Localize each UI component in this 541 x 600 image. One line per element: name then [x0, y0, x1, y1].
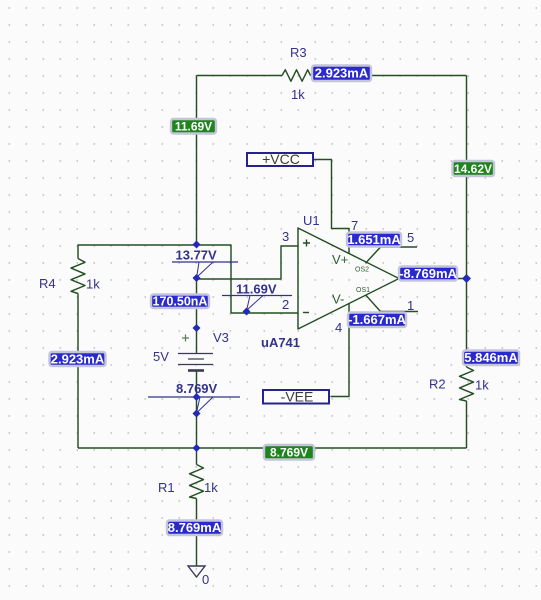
svg-text:-1.667mA: -1.667mA [348, 312, 406, 327]
svg-text:V3: V3 [213, 330, 229, 345]
node junction A (11.69V net) [193, 241, 201, 249]
svg-text:1k: 1k [475, 378, 489, 393]
power rail box -VEE [263, 389, 329, 405]
svg-text:3: 3 [282, 229, 289, 244]
op-amp pin 5 OS2 stub [366, 247, 418, 263]
probe point 11.69V (pin 2 wire) [243, 308, 251, 316]
resistor R1 zigzag [190, 465, 204, 499]
battery plus sign [182, 335, 189, 342]
wire junction A to R4 [78, 245, 197, 259]
voltage box 11.69V [171, 119, 216, 134]
wire right vertical (output node 14.62V) [466, 76, 468, 368]
op-amp internal labels [332, 252, 370, 307]
current box 8.769mA (R1) [167, 520, 222, 535]
svg-text:1.651mA: 1.651mA [347, 232, 401, 247]
current box 2.923mA (R4 branch) [50, 351, 106, 366]
resistor R4 zigzag [71, 259, 85, 294]
svg-text:U1: U1 [303, 213, 320, 228]
svg-text:R2: R2 [429, 377, 446, 392]
svg-text:R4: R4 [39, 276, 56, 291]
ground symbol node 0 [188, 566, 205, 577]
wire op-amp output stub [399, 278, 467, 280]
wire junction A to op-amp pin 2 [197, 245, 299, 313]
current box 2.923mA (R3) [312, 66, 371, 82]
wire top-left horizontal (node 11.69V to R3) [197, 75, 283, 77]
wire +VCC to pin 7 [314, 160, 349, 255]
svg-text:5: 5 [407, 230, 414, 245]
svg-text:11.69V: 11.69V [236, 282, 277, 297]
wire R1 to ground [196, 499, 198, 567]
svg-text:7: 7 [351, 218, 358, 233]
svg-text:1k: 1k [86, 277, 100, 292]
svg-text:8.769mA: 8.769mA [168, 520, 222, 535]
wire top-right horizontal (R3 to output node) [311, 75, 467, 77]
op-amp minus input marker [303, 312, 309, 314]
svg-text:0: 0 [202, 572, 209, 587]
svg-text:V+: V+ [332, 252, 348, 267]
svg-text:OS2: OS2 [355, 267, 369, 274]
svg-text:11.69V: 11.69V [175, 120, 212, 134]
svg-text:13.77V: 13.77V [176, 248, 218, 263]
svg-text:5.846mA: 5.846mA [464, 350, 518, 365]
svg-text:2: 2 [282, 297, 289, 312]
wire R4 bottom to bottom rail [77, 294, 79, 449]
op-amp plus input marker [303, 240, 310, 247]
svg-text:1k: 1k [291, 87, 305, 102]
battery plate short upper [188, 358, 204, 360]
current box 1.651mA (pin 7) [347, 232, 401, 247]
op-amp U1 triangle [298, 228, 399, 329]
wire bottom rail (node 8.769V) [78, 447, 467, 449]
svg-text:+VCC: +VCC [262, 151, 300, 167]
svg-text:2.923mA: 2.923mA [315, 66, 369, 81]
current box 5.846mA (R2) [463, 350, 519, 365]
svg-text:2.923mA: 2.923mA [51, 351, 105, 366]
svg-text:8.769V: 8.769V [176, 381, 218, 396]
wire R2 bottom to bottom rail [466, 401, 468, 448]
current box -8.769mA (output) [399, 266, 458, 281]
svg-text:V-: V- [332, 292, 344, 307]
power rail box +VCC [247, 151, 313, 167]
svg-text:1: 1 [407, 298, 414, 313]
wire bottom rail to R1 [196, 448, 198, 465]
probe point 170.50nA [193, 324, 201, 332]
svg-text:4: 4 [335, 320, 342, 335]
svg-text:1k: 1k [204, 480, 218, 495]
svg-text:14.62V: 14.62V [454, 162, 492, 176]
value boxes [50, 66, 520, 536]
probe point on 8.769V underline [193, 393, 201, 401]
svg-text:-VEE: -VEE [281, 389, 314, 405]
node junction bottom rail / R1 [193, 444, 201, 452]
probe 13.77V pointer [172, 262, 238, 277]
op-amp pin 1 OS1 stub [366, 295, 418, 311]
probe texts [176, 248, 277, 397]
svg-text:170.50nA: 170.50nA [153, 295, 208, 309]
svg-text:R3: R3 [290, 45, 307, 60]
svg-text:5V: 5V [153, 349, 169, 364]
resistor R3 zigzag [282, 70, 311, 81]
current box -1.667mA (pin 4) [348, 312, 407, 327]
battery plate short bottom [188, 369, 204, 372]
voltage box 14.62V [453, 161, 495, 176]
node junction output [462, 274, 471, 283]
probe 11.69V pointer [222, 296, 292, 310]
svg-text:uA741: uA741 [261, 335, 300, 350]
svg-text:OS1: OS1 [356, 287, 370, 294]
svg-text:-8.769mA: -8.769mA [399, 266, 457, 281]
svg-text:8.769V: 8.769V [270, 446, 308, 460]
battery V3 symbol [178, 335, 213, 371]
probe point 13.77V [193, 274, 201, 282]
wire battery+ to op-amp pin 3 [197, 246, 299, 354]
probe point 8.769V [193, 410, 201, 418]
resistor R2 zigzag [460, 367, 474, 401]
battery plate long lower [178, 364, 213, 366]
wire pin 4 to -VEE [331, 304, 350, 397]
svg-text:R1: R1 [158, 480, 175, 495]
wire left vertical (feedback node 11.69V) [196, 76, 198, 245]
probe 8.769V pointer [148, 397, 240, 412]
voltage box 8.769V (bottom rail) [264, 445, 314, 460]
battery plate long top [178, 353, 213, 355]
current box 170.50nA (pin 3 bias) [151, 295, 209, 309]
wire battery- down to bottom rail [196, 371, 198, 449]
